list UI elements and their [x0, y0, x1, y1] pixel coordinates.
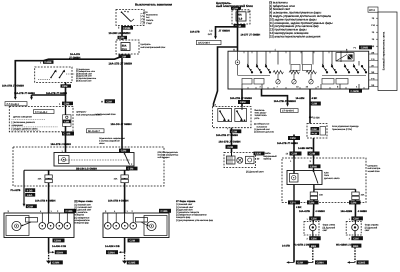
connector C-5MB on bottom edge	[349, 89, 362, 93]
connector C2M	[128, 238, 140, 242]
svg-text:14-27B: 14-27B	[282, 244, 290, 247]
svg-text:G/O: G/O	[208, 33, 212, 36]
PCM box	[307, 124, 327, 139]
svg-text:C2M: C2M	[27, 205, 32, 208]
connector C2M below fuse block	[119, 54, 131, 58]
connector C2M	[230, 129, 242, 133]
turn switch section 1	[218, 109, 232, 122]
svg-text:Централь-: Централь-	[368, 164, 379, 167]
svg-text:Работа: Работа	[146, 19, 154, 22]
svg-text:[1] головной свет: [1] головной свет	[176, 206, 193, 209]
connector BB3	[309, 244, 319, 248]
svg-text:16A-27B JT GMBH: 16A-27B JT GMBH	[219, 141, 241, 144]
svg-text:16A-27B 4 GMBH: 16A-27B 4 GMBH	[108, 199, 129, 202]
interior relay box with X	[336, 53, 354, 61]
exterior light switch box	[35, 67, 72, 82]
svg-text:10A: 10A	[361, 194, 365, 197]
svg-text:G2M: G2M	[297, 262, 303, 265]
svg-text:C2M: C2M	[64, 103, 69, 106]
splice S-206	[309, 116, 311, 118]
off-page reference P-T-10-45-2	[5, 102, 27, 106]
right headlamp bulb 2	[113, 223, 120, 230]
svg-text:BK-10-45-7: BK-10-45-7	[88, 130, 100, 133]
interior contact row left	[247, 65, 271, 73]
interior contact arrows right	[325, 69, 366, 71]
svg-text:[-] модуль дневного света: [-] модуль дневного света	[12, 127, 39, 130]
svg-text:16-A2M: 16-A2M	[296, 97, 305, 100]
svg-text:C2M: C2M	[130, 240, 135, 243]
svg-text:C2M4: C2M4	[54, 240, 61, 243]
svg-text:10-240 LG GMBH: 10-240 LG GMBH	[109, 32, 131, 35]
node BT12	[368, 7, 378, 12]
svg-text:C1M6: C1M6	[161, 210, 168, 213]
svg-text:электрический блок: электрический блок	[96, 113, 116, 116]
interior tiny pin numbers row	[247, 63, 354, 66]
svg-text:16A-27B JT GMBH: 16A-27B JT GMBH	[2, 85, 24, 88]
svg-text:4 GMBH: 4 GMBH	[358, 210, 368, 213]
svg-text:4 BK: 4 BK	[296, 206, 302, 209]
svg-text:C2M6: C2M6	[63, 133, 70, 136]
ground G2M relay	[288, 261, 295, 263]
left headlamp main lamp	[12, 221, 21, 230]
svg-text:G2M4: G2M4	[317, 262, 325, 265]
wire pin8 to turn signal	[241, 89, 243, 107]
left headlamp bulb 2	[47, 223, 54, 230]
svg-text:Централь-: Централь-	[76, 111, 87, 114]
svg-text:[2] дальний свет: [2] дальний свет	[176, 208, 193, 211]
svg-text:ной батареи: ной батареи	[158, 156, 171, 159]
connector C2M6 below DRL	[62, 132, 74, 136]
interior bus segments	[238, 75, 270, 77]
connector C2M below	[351, 236, 363, 240]
svg-text:Фара справа: Фара справа	[365, 224, 379, 227]
connector C2MB top right	[359, 45, 372, 49]
svg-text:BB3: BB3	[311, 245, 317, 248]
connector 4 DB	[25, 188, 35, 192]
connector C2MB	[122, 26, 134, 30]
connector C2M at relay output	[126, 167, 138, 171]
svg-text:C2M: C2M	[309, 202, 314, 205]
svg-text:16A-27B JT GMBH: 16A-27B JT GMBH	[216, 134, 238, 137]
svg-text:PCM: PCM	[312, 132, 317, 135]
left headlamp assembly box	[4, 213, 74, 238]
svg-text:Реле: Реле	[324, 174, 330, 177]
svg-text:C2M4: C2M4	[108, 251, 115, 254]
svg-text:поворота фар: поворота фар	[176, 216, 191, 219]
svg-text:16A-427B: 16A-427B	[299, 210, 310, 213]
svg-text:[6] боковой свет: [6] боковой свет	[76, 79, 92, 82]
svg-text:JT GMBH: JT GMBH	[219, 29, 230, 32]
svg-text:4 DB: 4 DB	[27, 189, 33, 192]
connector C1M6 left	[64, 209, 76, 213]
svg-text:16A-27B 4 GMBH: 16A-27B 4 GMBH	[35, 199, 56, 202]
resistor R2	[289, 71, 299, 74]
svg-text:P1-427B 1 DB: P1-427B 1 DB	[294, 243, 310, 246]
svg-text:Ограничитель напряжения: Ограничитель напряжения	[99, 137, 125, 140]
interior pin ticks bottom	[248, 87, 364, 89]
off-page reference inside DRL	[34, 110, 55, 114]
svg-text:LBA: LBA	[27, 194, 32, 197]
wire relay common to ground	[293, 203, 295, 263]
svg-text:ческий блок: ческий блок	[368, 170, 380, 173]
svg-text:16A-27B JT GMBH: 16A-27B JT GMBH	[109, 63, 133, 66]
svg-text:C2M: C2M	[312, 103, 317, 106]
relay blade	[125, 154, 130, 165]
switch interior wiring	[238, 51, 360, 65]
svg-text:C2M: C2M	[62, 85, 67, 88]
bracket main light switch	[378, 12, 397, 91]
svg-text:прибор: прибор	[264, 158, 272, 161]
svg-text:C2M: C2M	[353, 237, 358, 240]
svg-text:LG: LG	[210, 30, 213, 33]
svg-text:14-A06 4 DB: 14-A06 4 DB	[52, 245, 66, 248]
connector C2M	[288, 136, 300, 140]
svg-text:G2M4: G2M4	[52, 262, 60, 265]
battery saver block dashed box	[13, 147, 164, 186]
main light switch assembly box	[228, 51, 369, 89]
svg-text:16A-27B JT GMBH: 16A-27B JT GMBH	[46, 92, 67, 95]
wire turn switch to cluster	[231, 128, 233, 153]
svg-text:Выключатель зажигания: Выключатель зажигания	[135, 3, 172, 7]
svg-text:27 Фары справа: 27 Фары справа	[176, 200, 196, 203]
connector C2M	[310, 102, 321, 106]
ground G2M4 left lamp	[307, 261, 314, 263]
svg-text:питания аккумулятор-: питания аккумулятор-	[158, 154, 179, 157]
svg-text:C2M: C2M	[119, 37, 124, 40]
svg-text:G2M5: G2M5	[358, 262, 366, 265]
svg-text:Блоковый переключатель света: Блоковый переключатель света	[383, 31, 386, 70]
svg-text:10A: 10A	[38, 178, 42, 181]
svg-text:Выключено: Выключено	[146, 14, 158, 17]
right headlamp assembly box	[103, 213, 169, 238]
fuse F-6	[310, 192, 317, 195]
svg-text:W1-42BM 1 DB: W1-42BM 1 DB	[336, 243, 353, 246]
svg-text:Блок управления привода: Блок управления привода	[332, 125, 359, 128]
svg-text:F1.1: F1.1	[122, 48, 128, 51]
svg-text:C2M: C2M	[310, 153, 315, 156]
svg-text:4: 4	[265, 63, 266, 66]
svg-text:14-A2M 4 DB: 14-A2M 4 DB	[105, 245, 120, 248]
svg-text:4: 4	[247, 63, 248, 66]
ignition positions contacts	[141, 14, 145, 16]
off-page reference right	[87, 129, 105, 133]
svg-text:[1] головной свет: [1] головной свет	[75, 206, 92, 209]
svg-text:связи: связи	[99, 142, 105, 145]
svg-text:[1] габаритные: [1] габаритные	[75, 216, 91, 219]
connector C2M	[308, 152, 320, 156]
svg-text:C-5MB: C-5MB	[351, 90, 359, 93]
svg-text:трансмиссии (РСМ): трансмиссии (РСМ)	[332, 128, 352, 131]
cluster high beam lamp	[237, 157, 243, 163]
svg-text:M: M	[101, 101, 103, 104]
wire branch to turn signal switch	[214, 47, 238, 106]
svg-text:14-BB GMTB: 14-BB GMTB	[298, 147, 313, 150]
svg-text:16A-27B JT GMBH: 16A-27B JT GMBH	[277, 142, 298, 145]
right headlamp leveling box	[136, 218, 148, 223]
svg-text:C2M: C2M	[290, 137, 295, 140]
connector C2M	[226, 145, 238, 149]
wire relay output bus	[128, 166, 130, 170]
wire into turn switch from pin8	[241, 106, 243, 110]
resistor R3	[306, 71, 316, 74]
svg-text:C2M: C2M	[311, 237, 316, 240]
svg-text:дальнего света: дальнего света	[324, 177, 340, 180]
left headlamp inner housing	[6, 216, 29, 236]
connector C2M below	[309, 236, 321, 240]
svg-text:4: 4	[344, 63, 345, 66]
svg-text:[1] указатель: [1] указатель	[75, 211, 89, 214]
connector C2M	[238, 100, 250, 104]
right headlamp bulb 3	[122, 223, 129, 230]
central electric block (fuse F1.1)	[116, 40, 139, 54]
fuse F3	[124, 170, 126, 213]
svg-text:C2M: C2M	[353, 218, 358, 221]
svg-text:поворота фар: поворота фар	[75, 222, 90, 225]
connector C2M	[118, 36, 128, 39]
central electric block dashed box right	[282, 158, 366, 203]
svg-text:ный электри-: ный электри-	[368, 167, 382, 170]
svg-text:16A-27B JT GMBH: 16A-27B JT GMBH	[274, 100, 296, 103]
svg-text:C2MB: C2MB	[123, 27, 130, 30]
svg-text:Фара слева: Фара слева	[323, 224, 336, 227]
svg-text:положение: положение	[257, 125, 268, 128]
wire left headlamp ground	[48, 238, 50, 253]
turn signal switch box	[212, 106, 251, 127]
svg-text:C220: C220	[255, 153, 262, 156]
svg-text:+QN: +QN	[143, 11, 148, 14]
right headlamp inner housing	[144, 216, 167, 236]
ground G2M5 right lamp	[348, 261, 355, 263]
right headlamp bulb 1	[105, 223, 112, 230]
svg-text:10A: 10A	[114, 178, 118, 181]
cluster indicator 3	[246, 156, 255, 163]
svg-text:BT12: BT12	[369, 9, 375, 12]
central electric block (fuse F1.7)	[232, 10, 250, 24]
DRL output device	[63, 115, 72, 127]
wire pin2 to off-page ref	[262, 89, 288, 104]
off-page reference G/C/O-38-2	[197, 40, 222, 44]
connector C2M	[309, 216, 321, 220]
svg-text:K2M: K2M	[324, 171, 329, 174]
wire B horizontal	[32, 94, 66, 96]
svg-text:[1] боковой свет: [1] боковой свет	[75, 203, 91, 206]
svg-text:16A-27B JT GMBH: 16A-27B JT GMBH	[230, 97, 252, 100]
connector C2M on ignition wire	[119, 149, 130, 153]
ground symbol internal 2	[292, 80, 296, 84]
interior small boxes bottom	[242, 79, 252, 85]
svg-text:поворота: поворота	[75, 214, 85, 217]
wire ignition column down	[121, 54, 123, 151]
svg-text:Старт: Старт	[146, 22, 152, 25]
wire relay coil feed	[293, 135, 295, 159]
left headlamp bulb 1	[39, 223, 46, 230]
interior contact row right	[322, 65, 367, 73]
svg-text:BB4: BB4	[353, 245, 359, 248]
DRL module box	[9, 107, 73, 132]
svg-text:(РB) Распределитель: (РB) Распределитель	[158, 151, 179, 154]
relay K2M high beam relay	[287, 171, 322, 185]
svg-text:огни/указатели: огни/указатели	[75, 219, 91, 222]
svg-text:C4DB: C4DB	[44, 61, 51, 64]
svg-text:[1] габаритные огни/указатели: [1] габаритные огни/указатели	[176, 214, 207, 217]
svg-text:[15] анализ переключателя осве: [15] анализ переключателя освещения	[269, 34, 321, 38]
svg-text:[2] Дальний свет: [2] Дальний свет	[246, 170, 265, 173]
svg-text:[2] Дальний: [2] Дальний	[365, 226, 378, 229]
interior mini boxes middle	[291, 65, 300, 71]
ground symbol internal 1	[276, 80, 280, 84]
wires into relay	[293, 158, 295, 174]
wire drop to side lamps	[23, 170, 25, 204]
connector C2M	[61, 84, 72, 87]
connector C2M right lamp	[349, 200, 361, 204]
wire fuse output down	[237, 9, 239, 51]
svg-text:[1] регулирование угла наклона: [1] регулирование угла наклона фар	[176, 219, 214, 222]
fog lamp right box	[346, 222, 361, 236]
wire right headlamp ground	[124, 238, 126, 253]
fog lamp left box	[304, 222, 319, 236]
svg-text:[1] дальний свет: [1] дальний свет	[254, 128, 270, 131]
off-page reference CT-20-4B-5	[281, 109, 299, 113]
svg-text:4: 4	[331, 63, 332, 66]
interior stubs to bottom	[261, 84, 263, 89]
right edge pin stubs	[369, 54, 378, 87]
svg-text:C2M: C2M	[228, 146, 233, 149]
svg-text:Централь-: Централь-	[141, 43, 152, 46]
interior pin ticks top	[244, 51, 347, 53]
svg-text:освещения: освещения	[12, 124, 24, 127]
svg-text:нированный: нированный	[264, 155, 278, 158]
svg-text:C2M8: C2M8	[310, 166, 317, 169]
interior lamp symbol	[235, 60, 240, 65]
svg-text:[2] дальний свет: [2] дальний свет	[75, 209, 92, 212]
connector C1M6 right	[159, 209, 171, 213]
fuse F2	[48, 170, 50, 213]
svg-text:ный электрический блок: ный электрический блок	[141, 46, 166, 49]
svg-text:[1] боковой свет: [1] боковой свет	[176, 203, 192, 206]
interior contact arrows left	[250, 69, 270, 71]
dashed link line	[38, 79, 50, 81]
svg-text:[1] указатель поворота: [1] указатель поворота	[176, 211, 200, 214]
connector C2M	[351, 216, 363, 220]
svg-text:Выключа-: Выключа-	[255, 109, 266, 112]
turn switch section 2	[235, 109, 247, 122]
svg-text:тель указа-: тель указа-	[255, 112, 267, 115]
connector LBA	[25, 193, 35, 197]
svg-text:SB-234 LG GMBH: SB-234 LG GMBH	[76, 168, 97, 171]
connector C2M stub end	[23, 204, 26, 207]
left headlamp bulb 3	[56, 223, 63, 230]
svg-text:G/C/O-38-2: G/C/O-38-2	[198, 42, 211, 45]
svg-text:C2M: C2M	[312, 128, 317, 131]
svg-text:P-T-10-45-2: P-T-10-45-2	[35, 111, 48, 114]
right headlamp bulb 4	[130, 223, 137, 230]
svg-text:4 GMBH: 4 GMBH	[315, 210, 325, 213]
connector C2M8	[309, 164, 321, 168]
svg-text:4 BK: 4 BK	[312, 97, 318, 100]
svg-text:S2M4: S2M4	[56, 251, 63, 254]
svg-text:10A-DG JT GMBH: 10A-DG JT GMBH	[111, 123, 132, 126]
relay coil	[59, 156, 70, 164]
svg-text:CT-20-4B-5: CT-20-4B-5	[282, 110, 295, 113]
svg-text:рота: рота	[255, 117, 261, 120]
svg-text:C2M: C2M	[240, 101, 245, 104]
svg-text:10A: 10A	[319, 194, 323, 197]
connector BB4	[351, 244, 361, 248]
svg-text:4: 4	[256, 63, 257, 66]
switch blade 1	[50, 77, 52, 79]
svg-text:C2M: C2M	[64, 121, 69, 124]
svg-text:[1] мигание дальним: [1] мигание дальним	[254, 131, 274, 134]
wire to ground left lamp	[312, 248, 314, 263]
ground symbol internal 3	[309, 80, 313, 84]
svg-text:JT GMBH: JT GMBH	[69, 56, 80, 59]
splice arrow to connector C2M4	[120, 251, 124, 253]
wire to ground right lamp	[354, 248, 356, 263]
relay output wires	[293, 185, 295, 203]
cluster indicator 1	[227, 156, 236, 164]
svg-text:C1M6: C1M6	[66, 210, 73, 213]
svg-text:[-] включение дневного: [-] включение дневного	[12, 121, 36, 124]
left headlamp bulb 4	[64, 223, 71, 230]
svg-text:16A-27B J GMBH: 16A-27B J GMBH	[51, 143, 72, 146]
connector C220	[254, 152, 265, 156]
left headlamp leveling box	[26, 218, 38, 223]
cluster wire stub	[231, 152, 233, 156]
connector C2M4	[53, 238, 65, 242]
connector C2M relay ground branch	[288, 200, 300, 204]
svg-text:16A-27B JT GMBH: 16A-27B JT GMBH	[14, 92, 35, 95]
svg-text:G2M5: G2M5	[128, 262, 136, 265]
svg-text:Комби-: Комби-	[264, 152, 272, 155]
splice arrow to connector S2M4	[49, 251, 53, 253]
wire ignition feed	[121, 26, 123, 41]
wire pin16 to PCM	[309, 89, 311, 124]
svg-text:C2M: C2M	[311, 218, 316, 221]
wire branch to off-page left	[216, 27, 238, 37]
svg-text:4: 4	[322, 63, 323, 66]
fuse F-7	[352, 192, 359, 195]
svg-text:16A-42BM: 16A-42BM	[341, 210, 353, 213]
instrument cluster box	[224, 152, 256, 167]
svg-text:[2] Фары слева: [2] Фары слева	[75, 200, 94, 203]
wire A horizontal top left	[15, 56, 122, 60]
svg-text:10A-27B: 10A-27B	[190, 30, 200, 33]
svg-text:S-206: S-206	[313, 116, 320, 119]
wire A vertical drop	[14, 60, 16, 98]
connector C2M below fuse	[234, 24, 246, 28]
svg-text:C2M: C2M	[351, 202, 356, 205]
resistor R1	[273, 71, 283, 74]
svg-text:C2MB: C2MB	[361, 47, 368, 50]
ignition switch S1	[116, 10, 144, 26]
wire DRL output down	[65, 126, 67, 152]
svg-text:C2M: C2M	[106, 100, 111, 103]
svg-text:14-277 JT GMBH: 14-277 JT GMBH	[241, 33, 261, 36]
svg-text:P-T-10-45-2: P-T-10-45-2	[7, 103, 20, 106]
svg-text:C2M: C2M	[292, 153, 297, 156]
svg-text:P1-A27B: P1-A27B	[11, 189, 21, 192]
ground G2M4	[46, 261, 51, 264]
svg-text:4: 4	[353, 63, 354, 66]
connector C2M top	[231, 7, 241, 10]
connector C2M left lamp	[307, 200, 319, 204]
right headlamp main lamp	[147, 221, 156, 230]
relay K1 long box	[54, 153, 134, 167]
svg-text:и система аварийной: и система аварийной	[99, 140, 120, 143]
wire PCM output	[313, 138, 315, 158]
ground G2M5	[122, 261, 127, 264]
svg-text:[2] Дальний: [2] Дальний	[323, 226, 336, 229]
